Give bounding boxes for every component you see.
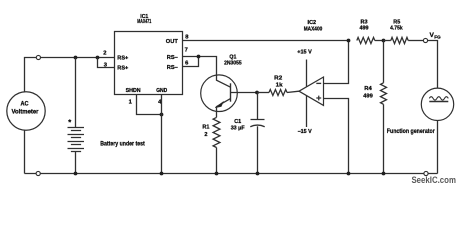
wire battery bottom lead (75, 152, 77, 174)
wire Q1 base to node (231, 92, 258, 94)
wire function generator bottom to rail (437, 121, 439, 174)
svg-text:–15 V: –15 V (298, 129, 312, 135)
wire R2 to opamp output (287, 91, 299, 92)
transistor Q1 base bar (230, 83, 232, 101)
svg-text:R1: R1 (202, 125, 209, 131)
op-amp IC2 MAX400 triangle (299, 77, 324, 105)
svg-text:2: 2 (103, 50, 106, 56)
junction R4 node on OUT wire (382, 39, 386, 43)
power -15V stub (306, 95, 308, 127)
wire GND pin 4 down to rail (161, 95, 163, 174)
svg-text:FG: FG (434, 35, 441, 40)
svg-text:MAX471: MAX471 (137, 19, 151, 25)
svg-text:499: 499 (360, 26, 369, 32)
junction pin3 branch on top-left wire (96, 56, 100, 60)
wire left vertical below voltmeter to ground rail (24, 130, 26, 173)
capacitor C1 plates (250, 120, 264, 127)
terminal open circle on top-left wire (36, 55, 40, 59)
terminal VFG open circle (423, 38, 427, 42)
junction node base-R2-C1 (255, 91, 259, 95)
power +15V stub (306, 60, 308, 87)
wire R5 to VFG terminal (408, 40, 423, 42)
svg-text:8: 8 (185, 34, 189, 40)
svg-text:Voltmeter: Voltmeter (12, 109, 40, 116)
svg-text:499: 499 (363, 94, 373, 100)
svg-text:2: 2 (204, 132, 207, 138)
svg-text:RS+: RS+ (117, 56, 129, 62)
wire C1 top stem (257, 93, 259, 120)
svg-text:6: 6 (185, 61, 189, 67)
svg-text:SHDN: SHDN (126, 88, 141, 94)
junction GND at rail (160, 172, 164, 176)
resistor R3 zigzag (357, 37, 375, 43)
svg-text:R4: R4 (364, 86, 372, 92)
junction battery top on wire (74, 56, 78, 60)
svg-text:*: * (68, 118, 71, 127)
transistor Q1 2N3055 circle (201, 75, 238, 112)
op IC1 MAX471 box (115, 32, 183, 95)
svg-text:C1: C1 (234, 119, 241, 125)
wire R3 to R4 node (375, 40, 384, 42)
AC voltmeter circle M1 (7, 92, 45, 130)
wire pin7 stub to Q1 collector (183, 57, 217, 76)
transistor Q1 emitter lead (217, 99, 231, 118)
svg-text:RS–: RS– (167, 55, 178, 61)
wire C1 bottom stem (257, 126, 259, 173)
svg-text:IC2: IC2 (308, 20, 317, 26)
resistor R2 zigzag (269, 90, 287, 96)
junction R1 at rail (215, 172, 219, 176)
svg-text:7: 7 (185, 48, 188, 54)
transistor Q1 emitter arrowhead (215, 102, 223, 108)
resistor R1 zigzag (213, 117, 220, 147)
junction R3 node on OUT wire (347, 39, 351, 43)
svg-text:R2: R2 (274, 76, 282, 82)
function generator wave symbol (429, 97, 448, 100)
wire R4 node to R5 (384, 40, 391, 42)
function generator baseline symbol (429, 101, 448, 103)
terminal open circle bottom-right rail (424, 171, 428, 175)
resistor R5 zigzag (391, 37, 408, 43)
wire R1 to rail (216, 148, 218, 174)
wire OUT pin8 to R3 node (183, 40, 349, 42)
svg-text:SeekIC.com: SeekIC.com (411, 175, 456, 185)
wire pin 3 branch (98, 58, 115, 68)
wire pin6 stub (183, 57, 199, 67)
junction R4 at rail (382, 172, 386, 176)
svg-text:2N3055: 2N3055 (224, 61, 242, 67)
wire battery top lead (75, 58, 77, 128)
svg-text:RS+: RS+ (117, 66, 129, 72)
transistor Q1 collector lead (217, 75, 231, 87)
junction C1 at rail (256, 172, 260, 176)
wire opamp noninverting input down to rail (324, 99, 349, 174)
svg-text:1k: 1k (276, 82, 284, 88)
wire node to R2 (257, 92, 269, 94)
terminal open circle bottom-left rail (36, 171, 40, 175)
wire opamp inverting input to R3 node (324, 41, 349, 84)
junction battery bottom on ground rail (74, 172, 78, 176)
svg-text:4.75k: 4.75k (390, 26, 403, 32)
svg-text:33 μF: 33 μF (231, 126, 246, 132)
svg-text:AC: AC (21, 100, 29, 107)
ground rail bottom wire (25, 173, 438, 175)
svg-text:RS–: RS– (167, 65, 178, 71)
svg-text:R3: R3 (361, 19, 368, 25)
svg-text:Battery under test: Battery under test (100, 140, 145, 147)
wire node down to R4 (383, 41, 385, 83)
svg-text:OUT: OUT (166, 39, 179, 45)
wire top-left from voltmeter corner to IC1 pin 2 (25, 58, 115, 92)
svg-text:+15 V: +15 V (297, 49, 312, 55)
resistor R4 zigzag (381, 83, 387, 105)
svg-text:R5: R5 (393, 19, 400, 25)
junction pin7-pin6 tie (197, 55, 201, 59)
junction pin1-pin4 link (160, 113, 164, 117)
junction noninverting at rail (347, 172, 351, 176)
svg-text:Function generator: Function generator (387, 128, 435, 135)
svg-text:1: 1 (129, 100, 133, 106)
wire VFG to function generator top (428, 41, 438, 89)
wire SHDN pin 1 to ground link (137, 95, 162, 115)
svg-text:GND: GND (156, 88, 167, 94)
wire R4 to rail (383, 104, 385, 173)
svg-text:MAX400: MAX400 (304, 27, 323, 33)
function generator circle (421, 88, 453, 120)
op-amp plus input sign (316, 96, 321, 101)
op-amp minus input sign (316, 82, 321, 84)
svg-text:Q1: Q1 (229, 55, 236, 61)
battery B1 under test plates (68, 128, 85, 152)
